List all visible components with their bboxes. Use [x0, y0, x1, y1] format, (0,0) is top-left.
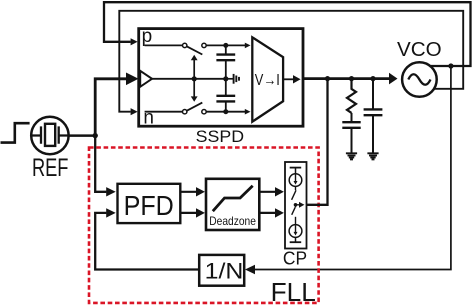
node: p cap junction	[223, 43, 228, 48]
svg-text:n: n	[143, 108, 154, 129]
switch control double arrow	[191, 55, 198, 102]
svg-text:FLL: FLL	[271, 277, 316, 305]
node: n cap junction	[223, 109, 228, 114]
CP top rail	[290, 168, 302, 174]
V to I converter trapezoid U1	[252, 37, 283, 121]
svg-text:PFD: PFD	[124, 189, 174, 221]
arrow into V-I n	[245, 109, 251, 115]
wire: REF down to PFD input 1	[95, 136, 116, 197]
common-mode ground symbol (rotated)	[226, 74, 239, 84]
sampling capacitor C1 (top)	[216, 47, 235, 79]
svg-text:p: p	[142, 26, 153, 47]
node: switch control junction	[192, 76, 197, 81]
PFD box	[118, 184, 181, 223]
wire: REF output	[69, 134, 96, 137]
CP switch down	[292, 205, 296, 225]
wire: n line to switch	[145, 111, 183, 113]
node: capacitor midpoint	[223, 76, 228, 81]
charge pump CP box	[285, 162, 307, 249]
loop filter capacitor C4	[364, 80, 383, 153]
VCO oscillator circle	[402, 62, 437, 97]
svg-text:1/N: 1/N	[205, 259, 244, 284]
arrow into V-I p	[245, 43, 251, 49]
wire: PFD output 1 to Deadzone	[180, 187, 205, 196]
REF square wave symbol	[1, 123, 30, 142]
CP current source I-down	[289, 225, 302, 238]
CP current source I-up	[289, 174, 302, 187]
CP output node and arrow	[294, 202, 305, 208]
ground for R1/C3 branch	[346, 153, 357, 159]
wire: CP output to loop filter	[307, 80, 328, 205]
wire: SSPD output to VCO	[303, 73, 398, 85]
wire: Deadzone output 2 to CP	[259, 208, 284, 217]
sampling capacitor C2 (bottom)	[216, 79, 235, 111]
divider 1/N box	[199, 255, 244, 286]
node: VCO output junction	[448, 63, 453, 68]
buffer amplifier triangle	[140, 71, 152, 87]
svg-text:VCO: VCO	[397, 39, 442, 61]
wire: VCO output down to divider 1/N	[245, 66, 451, 274]
node: loop filter junction 1	[325, 76, 330, 81]
switch S2 on n line	[183, 103, 207, 114]
CP bottom rail	[290, 237, 302, 242]
wire: divider output to PFD input 2	[95, 208, 199, 269]
wire: REF to SSPD buffer input	[95, 73, 138, 136]
svg-text:SSPD: SSPD	[196, 127, 244, 146]
wire: p line switch to capacitor node	[206, 44, 245, 46]
wire: buffer output to switch control node	[152, 78, 226, 80]
svg-text:V→I: V→I	[255, 72, 280, 89]
switch S1 on p line	[183, 43, 207, 54]
node: loop filter junction 2	[349, 76, 354, 81]
wire: Deadzone output 1 to CP	[259, 187, 284, 196]
wire: n line switch to capacitor node	[206, 111, 245, 113]
wire: inner VCO feedback loop to SSPD n input	[119, 11, 463, 116]
wire: PFD output 2 to Deadzone	[180, 208, 205, 217]
SSPD box	[139, 29, 303, 127]
svg-text:REF: REF	[32, 154, 69, 182]
Deadzone box	[206, 179, 259, 230]
ground for C4 branch	[367, 153, 378, 159]
node: loop filter junction 3	[370, 76, 375, 81]
loop filter resistor R1	[347, 80, 356, 113]
CP switch up	[292, 186, 296, 199]
svg-text:CP: CP	[283, 249, 307, 269]
red dashed FLL boundary box	[89, 148, 319, 303]
svg-text:Deadzone: Deadzone	[209, 214, 256, 228]
wire: V-I output arrow	[283, 75, 301, 83]
node: REF junction	[93, 133, 98, 138]
wire: p line to switch	[145, 44, 183, 46]
wire: outer VCO feedback loop to SSPD p input	[104, 2, 471, 66]
loop filter capacitor C3 (under R1)	[342, 113, 360, 153]
REF crystal oscillator circle	[31, 117, 68, 154]
